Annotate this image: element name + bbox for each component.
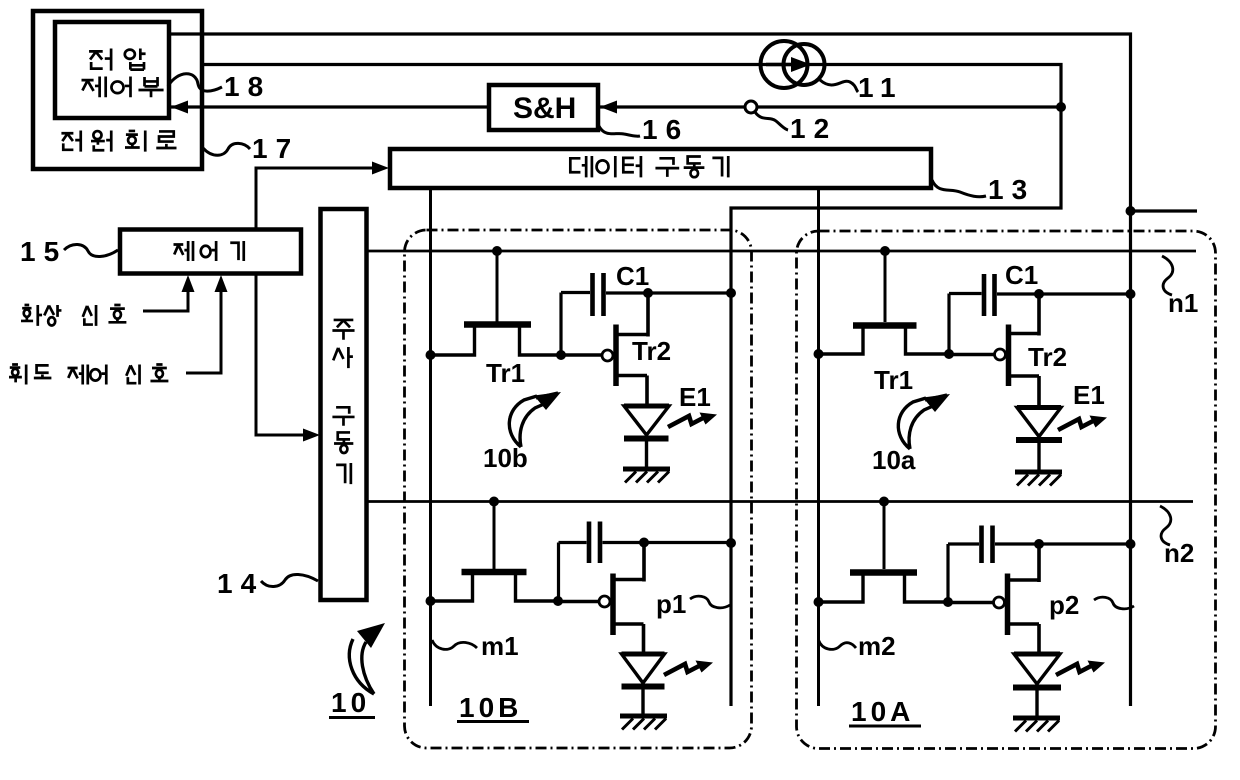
svg-text:10B: 10B [459, 692, 522, 723]
svg-text:C1: C1 [616, 261, 649, 291]
node gate on n1 [880, 246, 890, 256]
svg-text:E1: E1 [679, 382, 711, 412]
leader squiggle 16 [599, 126, 640, 136]
current source 11 (two overlapping circles) [761, 41, 825, 88]
leader squiggle n2 [1160, 506, 1171, 545]
svg-text:m1: m1 [481, 631, 519, 661]
leader squiggle 18 [168, 74, 222, 91]
arrow into controller (luminance control signal) [215, 275, 228, 292]
node cap/p1 [639, 538, 649, 548]
LED E1 triangle [1017, 408, 1061, 437]
svg-text:Tr2: Tr2 [1028, 342, 1067, 372]
svg-text:10: 10 [331, 687, 370, 718]
capacitor C1 riser [949, 294, 982, 355]
arrow into S&H [600, 101, 617, 114]
node data line [426, 350, 436, 360]
svg-text:S&H: S&H [513, 92, 576, 125]
transistor gate bar [462, 569, 527, 576]
transistor p1 channel bar [610, 574, 616, 636]
LED E1 cathode bar [624, 436, 669, 442]
transistor Tr1 drain lead [906, 328, 950, 354]
node data line row2 [426, 596, 436, 606]
node cap/p2 [1034, 539, 1044, 549]
node rail row2 [1126, 539, 1136, 549]
curved arrow 10a [898, 398, 933, 449]
LED row2 triangle [622, 654, 665, 683]
leader squiggle m2 [819, 640, 857, 649]
svg-text:12: 12 [790, 113, 837, 144]
transistor p1 drain lead [615, 543, 645, 582]
text 데이터 구동기 [570, 156, 728, 177]
svg-text:m2: m2 [858, 631, 896, 661]
transistor p2 gate bubble [994, 597, 1005, 608]
ground row2 [620, 714, 667, 719]
transistor Tr2 source lead [1010, 376, 1039, 407]
svg-text:p1: p1 [656, 589, 686, 619]
capacitor riser [948, 544, 979, 602]
text 화상 신호 [21, 305, 126, 326]
wire LED to ground [645, 441, 648, 467]
text 제어부 [82, 77, 164, 98]
svg-text:16: 16 [642, 114, 689, 145]
box 전원 회로 (power circuit) [33, 11, 202, 169]
transistor p1 gate bubble [599, 596, 610, 607]
wire to Tr2 gate [561, 353, 602, 356]
node storage row2 [553, 596, 563, 606]
box 제어기 (controller) [120, 230, 301, 274]
wire 17 control line to both drivers [256, 168, 378, 229]
block border 10B (dash-dot) [405, 230, 752, 748]
wire stub right of rail [1131, 209, 1198, 212]
text 제어기 [174, 241, 244, 261]
svg-text:14: 14 [217, 568, 264, 599]
wire 화상 신호 input [143, 287, 188, 311]
arrow into data driver [372, 162, 389, 175]
leader squiggle 11 [820, 80, 858, 92]
transistor Tr1 gate bar [853, 322, 917, 329]
transistor p1 source lead [615, 624, 644, 655]
transistor Tr1 gate stem [496, 251, 499, 322]
ground [1015, 470, 1062, 475]
block border 10A (dash-dot) [797, 231, 1216, 749]
leader squiggle p1 [690, 596, 730, 608]
LED triangle [1014, 654, 1060, 684]
LED row2 cathode bar [622, 684, 665, 690]
transistor p2 drain lead [1009, 544, 1039, 582]
node rail row2 [726, 538, 736, 548]
ground [623, 467, 670, 472]
ground [1013, 716, 1060, 721]
svg-text:C1: C1 [1005, 260, 1038, 290]
LED E1 triangle [624, 406, 669, 435]
transistor p2 source lead [1009, 624, 1039, 655]
text 휘도 제어 신호 [9, 365, 168, 385]
transistor drain lead [905, 575, 949, 602]
node rail [1126, 289, 1136, 299]
transistor Tr1 gate stem [884, 251, 887, 322]
svg-text:10b: 10b [483, 443, 528, 473]
node storage [556, 350, 566, 360]
wire scan line n2 [366, 500, 1193, 503]
text 전원 회로 [61, 131, 176, 152]
wire to Tr2 gate [949, 353, 994, 356]
node 12 (open circle on S&H line) [745, 101, 757, 113]
box 주사 구동기 (scan driver) [321, 209, 367, 600]
wire to gate bubble [948, 601, 993, 604]
wire supply line B (from power circuit via current source) [202, 65, 1061, 707]
transistor Tr1 source lead [431, 327, 475, 355]
node junction S&H line / supply B [1056, 102, 1066, 112]
box 데이터 구동기 (data driver) [390, 149, 931, 188]
transistor Tr2 gate bubble [602, 350, 613, 361]
node rail [726, 288, 736, 298]
transistor Tr2 channel bar [1006, 325, 1012, 387]
wire to gate bubble [558, 600, 599, 603]
transistor gate stem row2 [493, 502, 496, 570]
leader squiggle m1 [432, 640, 477, 649]
leader squiggle 12 [755, 112, 788, 130]
node data line [814, 349, 824, 359]
wire 휘도 제어 신호 input [186, 287, 221, 373]
transistor p2 channel bar [1005, 574, 1011, 636]
node gate on n2 [489, 497, 499, 507]
text 주사 구동기 vertical [332, 320, 354, 484]
wire C1 to rail [997, 292, 1131, 295]
node junction right rail stub [1126, 206, 1136, 216]
transistor gate stem [883, 502, 886, 570]
svg-text:13: 13 [988, 174, 1035, 205]
svg-text:n2: n2 [1164, 538, 1194, 568]
node gate on n2 [879, 497, 889, 507]
leader squiggle 13 [932, 180, 986, 197]
transistor source lead [431, 575, 473, 602]
svg-text:p2: p2 [1049, 590, 1079, 620]
wire LED to ground [1035, 690, 1038, 716]
capacitor C1 riser wire [561, 293, 590, 356]
svg-text:11: 11 [858, 72, 904, 103]
svg-text:Tr1: Tr1 [874, 365, 913, 395]
transistor Tr2 source lead [618, 376, 648, 407]
transistor Tr1 source lead [819, 328, 864, 354]
arrow into controller (image signal) [182, 275, 195, 292]
leader squiggle n1 [1162, 256, 1173, 295]
transistor Tr1 drain lead [520, 327, 562, 355]
leader squiggle 17 [203, 143, 250, 155]
text 전압 [89, 49, 146, 71]
LED cathode bar [1013, 685, 1061, 691]
svg-text:17: 17 [252, 133, 299, 164]
curved arrow for 10 [349, 639, 374, 694]
transistor drain lead [516, 575, 559, 602]
wire data line for 10B column [429, 188, 432, 706]
light emission arrow [668, 413, 717, 428]
transistor Tr1 gate bar [464, 321, 531, 328]
node C1/Tr2 [1034, 289, 1044, 299]
wire cap to rail [995, 542, 1131, 545]
light emission arrow row2 [664, 661, 713, 676]
capacitor riser row2 [559, 543, 587, 602]
svg-text:E1: E1 [1073, 380, 1105, 410]
wire data line for 10A column [817, 188, 820, 706]
transistor Tr2 drain lead [618, 293, 649, 337]
svg-text:Tr1: Tr1 [486, 358, 525, 388]
wire LED to ground [1037, 442, 1040, 470]
wire cap to rail row2 [603, 541, 732, 544]
leader squiggle 15 [64, 244, 118, 256]
arrow into scan driver [303, 429, 320, 442]
node storage row2 [943, 597, 953, 607]
leader squiggle p2 [1094, 597, 1134, 609]
svg-text:Tr2: Tr2 [632, 336, 671, 366]
capacitor C1 plates [593, 273, 604, 316]
capacitor plates [982, 526, 993, 564]
transistor Tr2 channel bar [613, 325, 619, 387]
svg-text:18: 18 [224, 71, 271, 102]
node storage [944, 349, 954, 359]
wire C1 to rail [606, 291, 731, 294]
arrow into voltage control unit [171, 101, 188, 114]
svg-text:15: 15 [20, 236, 67, 267]
capacitor C1 plates [984, 274, 995, 316]
light emission arrow [1058, 416, 1107, 431]
light emission arrow [1056, 661, 1105, 676]
node C1/Tr2 [643, 288, 653, 298]
wire supply line A (top, from voltage control to right rail) [169, 34, 1131, 706]
capacitor plates row2 [589, 522, 600, 564]
transistor gate bar [850, 569, 917, 576]
transistor source lead [819, 575, 864, 602]
node gate on n1 [492, 246, 502, 256]
leader squiggle 14 [261, 574, 318, 586]
transistor Tr2 drain lead [1010, 294, 1039, 336]
svg-text:n1: n1 [1168, 288, 1198, 318]
svg-text:10A: 10A [851, 696, 914, 727]
wire LED to ground row2 [641, 689, 644, 714]
node data line row2 [814, 597, 824, 607]
curved arrow 10b [509, 396, 544, 447]
box 전압 제어부 (voltage control unit) [55, 22, 169, 118]
LED E1 cathode bar [1016, 437, 1062, 443]
wire S&H feedback line [171, 105, 1061, 108]
box S&H [489, 85, 598, 130]
wire scan line n1 [366, 250, 1196, 253]
transistor Tr2 gate bubble [995, 349, 1006, 360]
